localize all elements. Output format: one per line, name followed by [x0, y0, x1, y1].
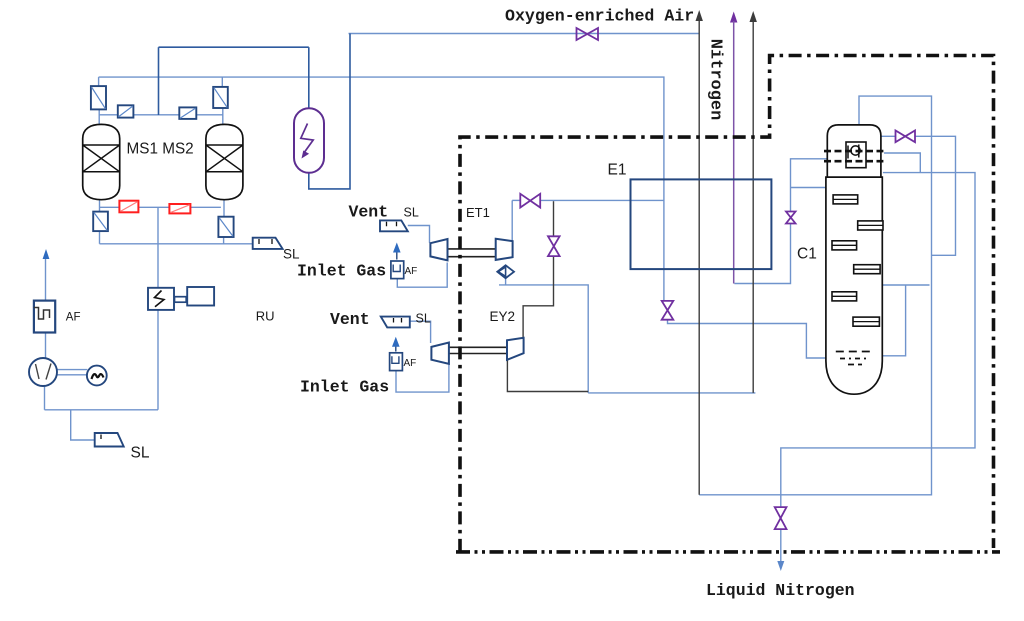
svg-text:AF: AF: [66, 312, 81, 324]
svg-text:AF: AF: [404, 358, 417, 369]
svg-text:ET1: ET1: [466, 205, 490, 220]
svg-text:Vent: Vent: [330, 310, 370, 329]
svg-text:C1: C1: [797, 246, 817, 263]
svg-text:Vent: Vent: [349, 203, 389, 222]
svg-text:MS1 MS2: MS1 MS2: [127, 141, 194, 158]
svg-text:SL: SL: [283, 247, 300, 262]
svg-text:E1: E1: [608, 162, 627, 179]
svg-text:EY2: EY2: [490, 309, 516, 324]
svg-text:AF: AF: [405, 266, 418, 277]
svg-text:Inlet Gas: Inlet Gas: [300, 378, 389, 397]
svg-text:Nitrogen: Nitrogen: [706, 39, 725, 121]
svg-text:RU: RU: [256, 309, 275, 324]
svg-text:Inlet Gas: Inlet Gas: [297, 262, 386, 281]
svg-text:Oxygen-enriched Air: Oxygen-enriched Air: [505, 7, 694, 26]
svg-text:SL: SL: [404, 206, 419, 220]
svg-text:SL: SL: [131, 445, 150, 462]
svg-text:Liquid Nitrogen: Liquid Nitrogen: [706, 581, 855, 600]
svg-text:SL: SL: [416, 312, 431, 326]
